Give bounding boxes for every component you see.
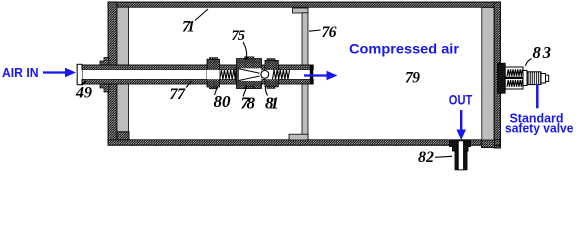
- svg-text:79: 79: [405, 70, 420, 87]
- svg-text:78: 78: [241, 94, 256, 113]
- svg-text:OUT: OUT: [449, 93, 473, 108]
- svg-text:49: 49: [75, 85, 92, 102]
- svg-text:safety valve: safety valve: [505, 122, 574, 136]
- svg-text:81: 81: [265, 94, 279, 113]
- svg-text:80: 80: [214, 92, 232, 111]
- svg-text:76: 76: [322, 24, 337, 41]
- svg-text:82: 82: [418, 149, 434, 166]
- svg-text:Compressed air: Compressed air: [349, 41, 460, 57]
- svg-text:71: 71: [182, 19, 195, 36]
- svg-text:AIR IN: AIR IN: [2, 66, 39, 80]
- svg-text:77: 77: [170, 86, 187, 103]
- svg-text:75: 75: [232, 28, 246, 44]
